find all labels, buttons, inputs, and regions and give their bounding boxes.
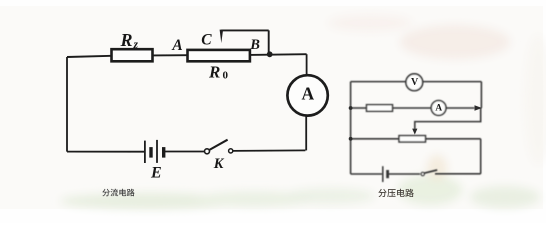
svg-text:C: C [201, 32, 212, 49]
svg-text:E: E [150, 164, 162, 181]
svg-text:R: R [208, 62, 220, 81]
svg-text:A: A [301, 84, 314, 104]
svg-text:0: 0 [223, 70, 229, 82]
svg-text:A: A [435, 104, 442, 114]
svg-text:B: B [249, 37, 260, 53]
svg-text:V: V [411, 77, 419, 88]
svg-text:z: z [133, 39, 139, 51]
svg-text:K: K [213, 156, 225, 172]
svg-text:A: A [171, 37, 182, 54]
svg-text:R: R [120, 30, 133, 50]
